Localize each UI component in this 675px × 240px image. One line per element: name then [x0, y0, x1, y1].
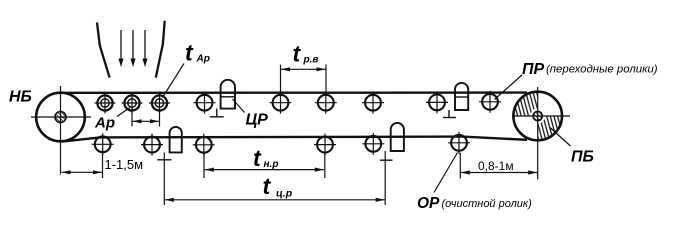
label t_Ap: [185, 40, 210, 66]
belt top line: [57, 91, 527, 94]
dimension 1-1,5m: [62, 151, 144, 179]
bottom roller 4: [314, 134, 336, 156]
bottom roller 1: [92, 133, 114, 155]
dimension t_ts.r (centering device pitch): [165, 198, 385, 202]
leader Ar: [117, 108, 130, 117]
leader PR: [495, 75, 523, 100]
top roller 8: [426, 91, 448, 113]
dimension t_Ap (roller pitch under hopper): [132, 107, 160, 127]
svg-text:ц.р: ц.р: [276, 188, 293, 200]
top roller 7: [362, 92, 384, 114]
svg-text:Ар: Ар: [196, 54, 210, 65]
label t_n.r: [253, 145, 278, 171]
impact roller Ar 3: [149, 93, 170, 114]
belt bottom line middle: [100, 135, 462, 138]
svg-text:ПБ: ПБ: [571, 149, 594, 166]
svg-text:t: t: [263, 173, 272, 199]
bottom roller 6 (OR cleaning roller): [448, 132, 470, 154]
svg-text:р.в: р.в: [303, 55, 319, 66]
leader PB: [550, 128, 571, 147]
top roller 6: [315, 92, 337, 114]
dimension t_p.v (upper roller pitch): [281, 65, 327, 93]
label PR: [522, 61, 658, 78]
svg-text:t: t: [185, 40, 194, 66]
hopper flow arrow 2: [130, 30, 135, 67]
impact roller Ar 1: [95, 93, 116, 114]
hopper left wall: [97, 23, 110, 78]
leader TsR: [233, 99, 245, 113]
hopper right wall: [156, 21, 165, 78]
svg-text:(переходные ролики): (переходные ролики): [546, 64, 658, 76]
svg-text:t: t: [253, 145, 262, 171]
svg-text:t: t: [293, 41, 302, 67]
impact roller Ar 2: [122, 93, 143, 114]
label OR: [417, 195, 532, 212]
bottom roller 3: [193, 134, 215, 156]
svg-text:ПР: ПР: [522, 61, 545, 78]
centering device top right: [443, 83, 468, 118]
svg-text:НБ: НБ: [9, 89, 32, 106]
belt bottom line right slope: [462, 137, 527, 140]
dimension 0,8-1m: [460, 153, 537, 179]
bottom roller 5: [362, 133, 384, 155]
label t_p.v: [293, 41, 319, 67]
hopper flow arrow 1: [118, 30, 123, 67]
leader OR: [434, 153, 458, 193]
svg-text:ОР: ОР: [417, 195, 440, 212]
svg-text:Ар: Ар: [94, 115, 115, 132]
svg-text:ЦР: ЦР: [246, 112, 269, 129]
svg-text:0,8-1м: 0,8-1м: [478, 159, 514, 173]
svg-text:н.р: н.р: [264, 159, 279, 170]
centering device bottom right: [380, 123, 404, 205]
dimension t_n.r (lower roller pitch): [204, 152, 325, 178]
drum PB (right pulley): [512, 87, 570, 180]
hopper flow arrow 3: [142, 30, 147, 67]
top roller 9 (PR transition roller): [479, 91, 501, 113]
top roller 5: [270, 92, 292, 114]
svg-text:(очистной ролик): (очистной ролик): [442, 198, 533, 210]
leader t_Ap: [163, 64, 185, 98]
top roller 4: [194, 92, 216, 114]
belt bottom line left slope: [62, 137, 100, 141]
label t_ts.r: [263, 173, 293, 200]
centering device TsR (top): [210, 80, 235, 117]
bottom roller 2: [141, 134, 163, 156]
drum NB (left pulley): [31, 86, 91, 175]
centering device bottom left: [157, 127, 182, 205]
svg-text:1-1,5м: 1-1,5м: [105, 157, 144, 172]
